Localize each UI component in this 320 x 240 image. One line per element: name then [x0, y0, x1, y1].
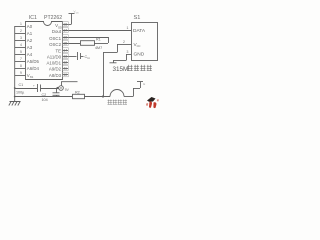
svg-text:2: 2: [123, 40, 125, 44]
svg-text:A1: A1: [27, 31, 33, 36]
svg-text:PT2262: PT2262: [44, 15, 62, 21]
svg-text:C1: C1: [19, 83, 24, 87]
svg-text:A9/D2: A9/D2: [49, 67, 62, 72]
svg-text:18: 18: [63, 22, 67, 26]
svg-text:TE: TE: [55, 49, 61, 54]
svg-text:OSC1: OSC1: [49, 36, 61, 41]
svg-text:100µ: 100µ: [16, 90, 25, 94]
svg-text:17: 17: [63, 28, 67, 32]
svg-text:A10/D1: A10/D1: [47, 61, 62, 66]
svg-text:S1: S1: [134, 15, 141, 21]
svg-text:A4: A4: [27, 52, 33, 57]
svg-text:IC1: IC1: [29, 15, 37, 21]
svg-text:A0: A0: [27, 24, 33, 29]
svg-text:14: 14: [63, 48, 67, 52]
svg-text:Dout: Dout: [52, 29, 62, 34]
svg-text:9: 9: [20, 71, 22, 75]
svg-text:A8/D3: A8/D3: [49, 73, 62, 78]
svg-text:A11/D0: A11/D0: [47, 55, 62, 60]
svg-text:315M: 315M: [113, 66, 129, 73]
svg-text:GND: GND: [134, 52, 145, 58]
svg-text:16: 16: [63, 35, 67, 39]
svg-text:11: 11: [87, 57, 90, 60]
svg-text:A2: A2: [27, 38, 33, 43]
svg-text:OSC2: OSC2: [49, 42, 61, 47]
svg-text:R1: R1: [96, 38, 101, 42]
svg-text:4M7: 4M7: [95, 46, 102, 50]
svg-text:9V: 9V: [65, 88, 70, 92]
svg-text:SS: SS: [30, 75, 34, 79]
svg-text:DD: DD: [58, 25, 62, 29]
svg-text:A3: A3: [27, 45, 33, 50]
svg-text:104: 104: [42, 98, 48, 102]
svg-text:E: E: [143, 82, 145, 86]
svg-text:1: 1: [127, 26, 129, 30]
svg-text:15: 15: [63, 41, 67, 45]
svg-text:2: 2: [20, 29, 22, 33]
svg-text:+: +: [33, 83, 35, 87]
svg-text:DATA: DATA: [133, 28, 146, 34]
svg-text:3: 3: [20, 36, 22, 40]
svg-text:12: 12: [63, 60, 67, 64]
svg-text:C2: C2: [42, 93, 47, 97]
svg-text:CC: CC: [137, 44, 141, 48]
svg-text:5: 5: [20, 50, 22, 54]
svg-text:DD: DD: [76, 13, 80, 15]
svg-text:A5/D5: A5/D5: [27, 59, 40, 64]
svg-text:13: 13: [63, 54, 67, 58]
svg-text:8: 8: [20, 64, 22, 68]
svg-text:7: 7: [20, 57, 22, 61]
svg-text:R2: R2: [75, 90, 80, 94]
svg-text:10: 10: [63, 73, 67, 77]
svg-text:1: 1: [20, 22, 22, 26]
svg-text:4: 4: [20, 43, 22, 47]
svg-text:A6/D4: A6/D4: [27, 66, 40, 71]
svg-text:3: 3: [127, 50, 129, 54]
svg-text:11: 11: [64, 66, 68, 70]
